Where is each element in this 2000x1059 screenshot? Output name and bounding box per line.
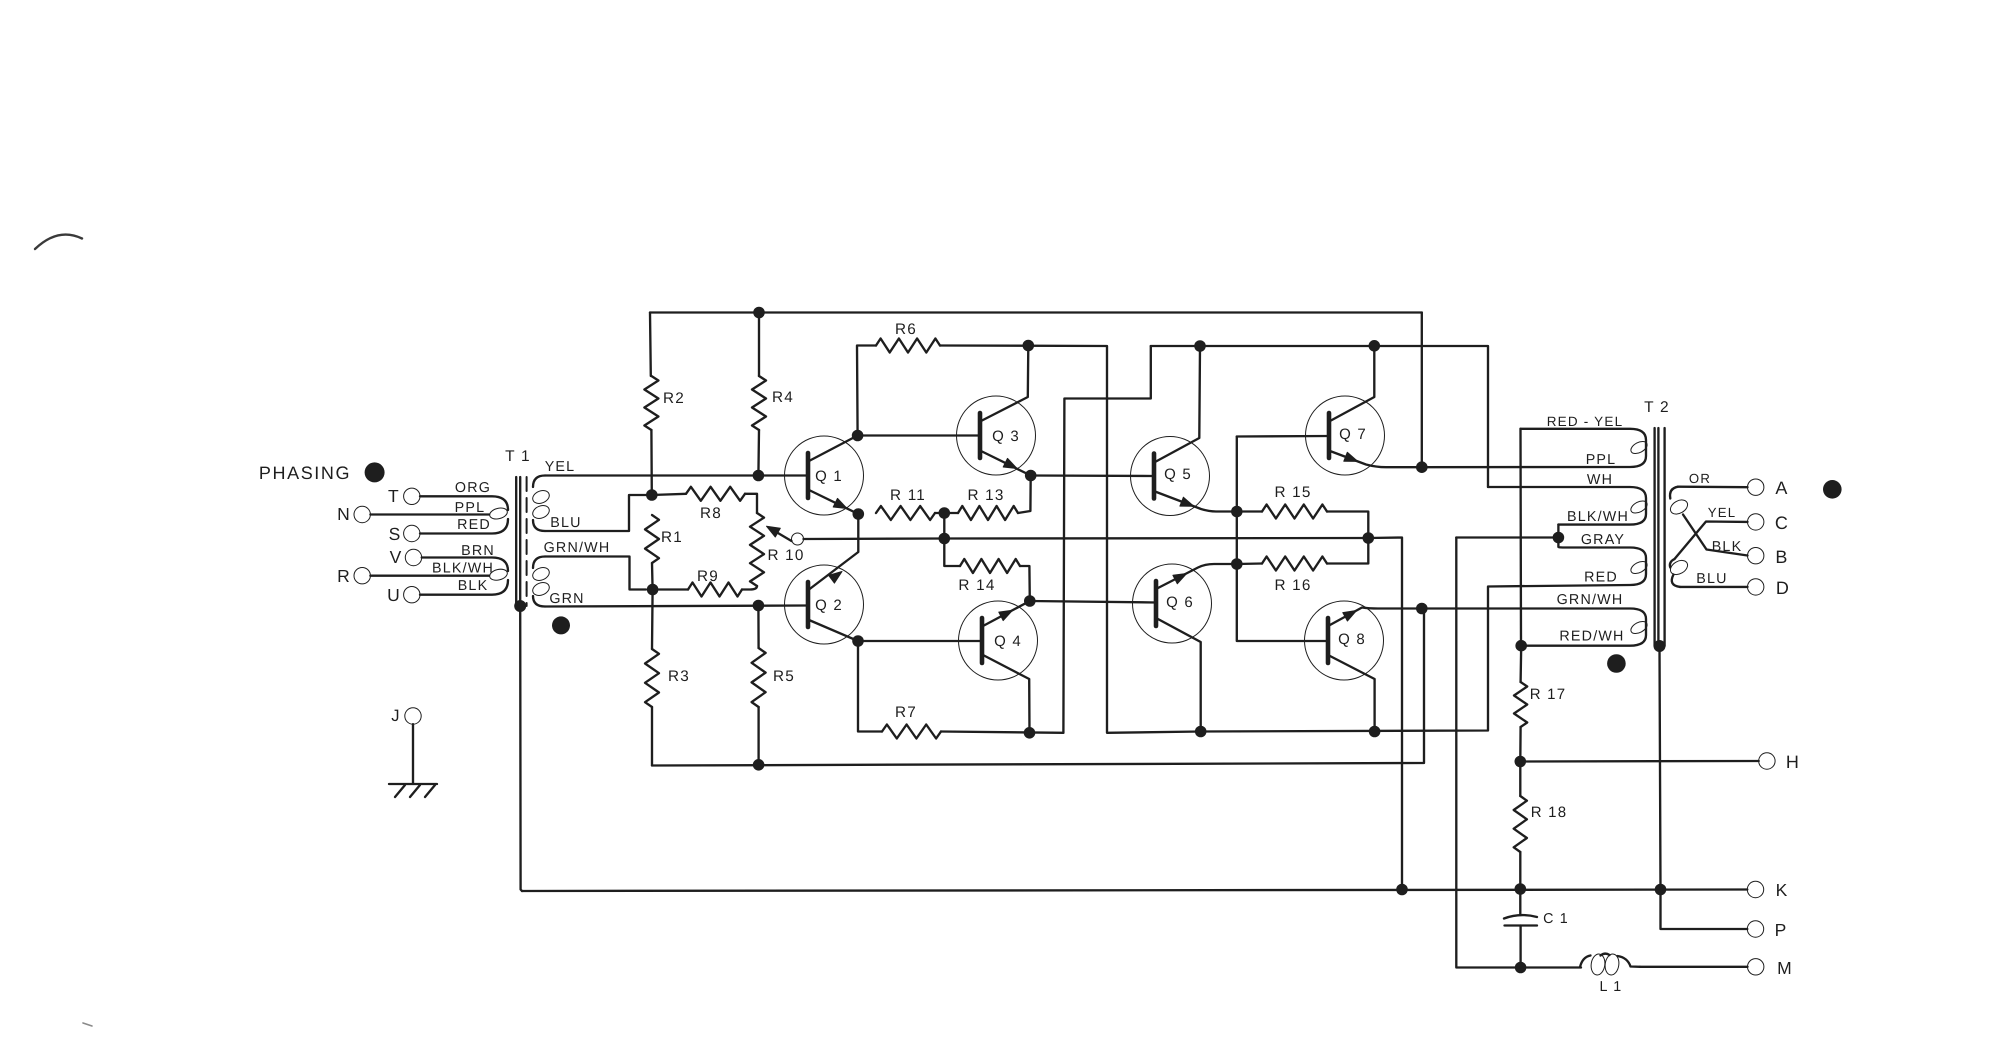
wire bottom rail <box>652 609 1424 766</box>
svg-text:RED - YEL: RED - YEL <box>1547 414 1624 429</box>
wire GRN to Q2 base <box>545 606 807 607</box>
wire R2 to R1 <box>650 430 653 495</box>
T2 primary section WH/BLK-WH <box>1488 487 1646 525</box>
wire H line <box>1520 760 1758 763</box>
node Q5 emitter / R15 / driver bus <box>1231 506 1243 518</box>
Q7 base wire <box>1237 435 1329 438</box>
transistor Q8 <box>1305 601 1384 680</box>
svg-text:GRN: GRN <box>549 591 584 607</box>
wire R4 top lead <box>758 313 760 377</box>
wire M line <box>1521 966 1581 968</box>
svg-text:R7: R7 <box>895 704 917 721</box>
capacitor C1 <box>1519 889 1521 915</box>
node Q6 collector / bottom collector line <box>1195 726 1207 738</box>
resistor R10 (pot) <box>750 513 764 586</box>
resistor R6 <box>876 339 940 353</box>
svg-text:YEL: YEL <box>545 459 576 475</box>
wire R5 bottom lead <box>757 707 759 765</box>
svg-text:C 1: C 1 <box>1543 911 1569 927</box>
svg-text:D: D <box>1776 578 1790 598</box>
Q2 collector <box>809 620 858 641</box>
resistor R5 <box>752 648 766 707</box>
svg-text:C: C <box>1775 513 1789 533</box>
phasing dot below T1 <box>552 616 570 634</box>
node RED/WH / R17 top <box>1515 640 1527 652</box>
svg-text:ORG: ORG <box>455 480 491 496</box>
wire R13 left <box>944 512 958 514</box>
wire GRAY feedback line <box>1456 536 1558 538</box>
wire R11-R13 node to wiper line <box>943 513 945 539</box>
T1 secondary winding GRN-WH/GRN <box>533 557 545 569</box>
node Q4 collector / R7 line <box>1024 727 1036 739</box>
svg-text:J: J <box>391 707 400 725</box>
Q3 emitter <box>981 451 1031 476</box>
svg-text:BLU: BLU <box>1696 571 1727 587</box>
wire R14 left lead <box>944 539 960 567</box>
svg-text:WH: WH <box>1587 472 1613 488</box>
Q8 collector <box>1329 656 1375 732</box>
Q2 emitter to shared node <box>809 514 858 590</box>
transistor Q2 <box>785 565 864 644</box>
svg-text:P: P <box>1775 920 1788 940</box>
wire YEL to Q1 base <box>545 474 807 476</box>
wire BLU to terminal D <box>1680 586 1748 588</box>
svg-text:Q 3: Q 3 <box>992 428 1020 445</box>
T1 primary loop (upper) <box>489 506 509 520</box>
ground symbol <box>389 783 437 785</box>
wire wiper line to K (GRAY feedback) <box>804 538 1403 890</box>
T1 secondary winding YEL/BLU <box>533 476 545 488</box>
resistor R18 <box>1514 796 1527 852</box>
Q5 base wire <box>1031 474 1154 477</box>
wire RED-YEL to RED/WH tie <box>1519 429 1522 646</box>
node wiper/K junction <box>1396 884 1408 896</box>
node wiper tap <box>939 533 951 545</box>
terminal C <box>1748 514 1764 530</box>
Q5 collector <box>1155 346 1200 462</box>
svg-text:N: N <box>337 504 351 524</box>
svg-text:R 18: R 18 <box>1531 804 1568 821</box>
transistor Q4 <box>959 601 1038 680</box>
transistor Q1 <box>785 436 864 515</box>
wire BLK-WH drop to GRAY node <box>1557 525 1559 538</box>
resistor R11 <box>876 506 935 520</box>
svg-text:T 1: T 1 <box>505 448 531 465</box>
svg-text:RED: RED <box>1584 569 1618 585</box>
phasing dot right of A <box>1823 480 1842 499</box>
svg-text:GRN/WH: GRN/WH <box>1557 592 1624 608</box>
svg-text:BLK: BLK <box>458 578 489 594</box>
wire R15 left <box>1237 510 1262 512</box>
Q7 emitter <box>1330 451 1422 467</box>
Q5 emitter <box>1155 492 1237 512</box>
Q3 base wire <box>858 434 980 436</box>
wire R7 line riser <box>1063 346 1150 733</box>
R10 wiper arrow <box>772 530 792 542</box>
svg-text:Q 6: Q 6 <box>1166 594 1194 611</box>
page curl artifact <box>35 235 82 249</box>
node GRAY center tap <box>1553 532 1565 544</box>
svg-text:R5: R5 <box>773 668 795 685</box>
svg-text:BLK/WH: BLK/WH <box>432 560 494 576</box>
svg-text:YEL: YEL <box>1708 505 1737 520</box>
transistor Q5 <box>1131 437 1210 516</box>
terminal D <box>1748 579 1764 595</box>
svg-text:U: U <box>387 585 401 605</box>
wire BLK/WH <box>370 575 489 577</box>
wire R6 right segment <box>940 346 1201 733</box>
wire GRN/WH to R9 node <box>545 557 646 590</box>
wire R2 top <box>649 313 652 377</box>
resistor R16 <box>1262 557 1327 571</box>
transistor Q3 <box>957 396 1036 475</box>
resistor R2 <box>644 376 658 430</box>
wire R9 left <box>653 588 688 590</box>
wire collector line to RED tap <box>1201 587 1488 732</box>
wire R8 right to R10 <box>745 494 757 513</box>
wire secondary diagonal to BLK <box>1683 515 1748 556</box>
wire collector rail right segment <box>1151 346 1488 487</box>
svg-text:R 16: R 16 <box>1274 577 1311 594</box>
wire R13 right riser <box>1018 476 1031 514</box>
wire R16 right <box>1327 538 1368 564</box>
wire BLU to R1 top <box>545 495 646 531</box>
terminal M <box>1748 959 1764 975</box>
terminal H <box>1759 753 1775 769</box>
wire top rail drop to PPL node <box>1421 313 1423 468</box>
svg-text:R3: R3 <box>668 668 690 685</box>
node Q3 collector on R6 rail <box>1023 340 1035 352</box>
svg-text:R4: R4 <box>772 389 794 406</box>
wire YEL diagonal <box>1675 522 1748 560</box>
svg-text:R 14: R 14 <box>958 577 995 594</box>
resistor R8 <box>686 487 745 501</box>
Q1 emitter <box>809 490 858 514</box>
svg-text:R6: R6 <box>895 321 917 338</box>
node Q5 collector on rail <box>1194 340 1206 352</box>
svg-text:PHASING: PHASING <box>259 463 351 483</box>
svg-text:R 11: R 11 <box>890 487 926 504</box>
wire K line <box>522 890 1747 892</box>
wire R18 top lead <box>1519 762 1521 797</box>
resistor R15 <box>1262 505 1327 519</box>
resistor R1 <box>645 515 659 563</box>
terminal B <box>1748 548 1764 564</box>
resistor R17 <box>1514 682 1527 727</box>
wire BLK <box>420 580 508 595</box>
svg-text:R 17: R 17 <box>1530 686 1567 703</box>
wire R17 top lead <box>1519 646 1522 682</box>
node R1 top / R8 / BLU <box>646 489 658 501</box>
svg-text:R2: R2 <box>663 390 685 407</box>
wire R11 right <box>935 512 944 514</box>
resistor R14 <box>960 559 1020 573</box>
svg-text:R 15: R 15 <box>1274 484 1311 501</box>
Q6 emitter <box>1157 564 1237 589</box>
svg-text:BLU: BLU <box>550 515 581 531</box>
R10 wiper terminal <box>792 533 804 545</box>
svg-text:K: K <box>1776 880 1789 900</box>
Q8 emitter <box>1329 608 1422 626</box>
svg-text:RED: RED <box>457 517 491 533</box>
Q4 collector <box>983 655 1030 733</box>
transformer T2 core <box>1653 428 1655 646</box>
svg-text:R8: R8 <box>700 505 722 522</box>
node Q1 collector / Q3 base / R6 <box>852 430 864 442</box>
phasing dot below T2 primary <box>1607 654 1626 673</box>
svg-text:L 1: L 1 <box>1600 979 1623 995</box>
Q7 collector <box>1330 346 1374 421</box>
Q6 base wire <box>1030 601 1156 603</box>
node R4 top <box>753 307 765 319</box>
wire R16 left <box>1237 562 1262 565</box>
wire ORG <box>420 496 508 510</box>
wire R18 bottom lead <box>1519 852 1521 889</box>
wire J to ground <box>412 724 414 784</box>
svg-text:OR: OR <box>1689 471 1711 486</box>
svg-text:Q 5: Q 5 <box>1164 466 1192 483</box>
node R1 bottom / R9 / GRN-WH <box>647 584 659 596</box>
T2 primary section GRN-WH/RED-WH <box>1422 609 1646 646</box>
node GRAY feedback tap <box>1363 532 1375 544</box>
Q4 base wire <box>858 640 982 642</box>
svg-text:R1: R1 <box>661 529 683 546</box>
transistor Q6 <box>1133 564 1212 643</box>
Q3 collector <box>981 346 1028 422</box>
svg-text:BLK: BLK <box>1712 539 1743 555</box>
wire T1 core to K line <box>520 606 522 891</box>
resistor R3 <box>645 649 659 707</box>
Q6 collector <box>1157 619 1201 732</box>
svg-text:V: V <box>390 547 403 567</box>
svg-text:B: B <box>1775 547 1788 567</box>
svg-text:Q 7: Q 7 <box>1339 426 1367 443</box>
svg-text:S: S <box>389 524 402 544</box>
T2 core bottom junction <box>1654 640 1666 652</box>
transformer T1 core <box>515 477 517 606</box>
svg-text:GRAY: GRAY <box>1581 532 1625 548</box>
T2 secondary winding upper <box>1670 487 1678 499</box>
node Q1 base / R4 <box>753 470 765 482</box>
wire R14 right lead <box>1020 566 1030 601</box>
wire R3 leads <box>651 590 654 650</box>
svg-text:Q 4: Q 4 <box>994 633 1022 650</box>
node Q8 collector <box>1369 726 1381 738</box>
Q4 emitter <box>983 601 1030 626</box>
node Q4 emitter / Q6 base <box>1024 595 1036 607</box>
Q1 collector <box>809 436 858 462</box>
svg-text:R: R <box>337 566 351 586</box>
wire R1 bottom <box>651 563 654 590</box>
svg-text:Q 1: Q 1 <box>815 468 843 485</box>
phasing dot (left) <box>365 462 385 482</box>
node Q2 collector / Q4 base / R7 <box>852 635 864 647</box>
node R5 bottom rail <box>753 759 765 771</box>
wire RED <box>420 519 508 534</box>
wire top rail <box>650 311 1422 313</box>
svg-text:Q 8: Q 8 <box>1338 631 1366 648</box>
T2 primary section GRAY/RED <box>1488 538 1646 587</box>
T2 primary section RED-YEL/PPL <box>1422 429 1646 467</box>
transistor Q7 <box>1306 396 1385 475</box>
svg-text:Q 2: Q 2 <box>815 597 843 614</box>
node R17/R18/H <box>1515 756 1527 768</box>
svg-text:RED/WH: RED/WH <box>1559 628 1624 644</box>
wire GRAY tap drop to M line <box>1456 538 1520 968</box>
wire Q1 collector to R6 <box>857 346 876 436</box>
wire R8 left <box>652 494 686 495</box>
svg-text:A: A <box>1775 478 1788 498</box>
wire BRN <box>422 558 508 572</box>
resistor R7 <box>882 725 941 739</box>
svg-text:R 10: R 10 <box>767 547 804 564</box>
resistor R13 <box>958 506 1018 520</box>
node Q7 collector on rail <box>1369 340 1381 352</box>
svg-text:R9: R9 <box>697 568 719 585</box>
svg-text:T: T <box>388 486 400 506</box>
wire R10 bottom to R9 <box>742 586 757 590</box>
svg-text:BLK/WH: BLK/WH <box>1567 509 1629 525</box>
node Q3 emitter / Q5 base <box>1025 470 1037 482</box>
terminal P <box>1747 921 1763 937</box>
wire P branch <box>1661 890 1748 930</box>
node Q1 emitter / R11 <box>853 508 865 520</box>
wire R5 top lead <box>757 606 760 649</box>
svg-text:H: H <box>1786 752 1800 772</box>
T1 core bottom junction <box>514 600 526 612</box>
terminal A <box>1748 479 1764 495</box>
wire T2 core bottom to K/P <box>1660 646 1661 890</box>
T1 primary loop (lower) <box>489 567 509 581</box>
node Q6 emitter / R16 <box>1231 558 1243 570</box>
wire PPL <box>370 513 489 515</box>
wire driver bus (Q7 base to Q8 base) <box>1237 437 1326 642</box>
node Q7 emitter / PPL / top rail <box>1416 461 1428 473</box>
terminal K <box>1747 881 1763 897</box>
wire R15 right <box>1327 512 1368 539</box>
node R18 / C1 / K line <box>1515 883 1527 895</box>
node Q8 emitter / GRN-WH / bottom rail <box>1416 603 1428 615</box>
wire OR to terminal A <box>1678 486 1748 489</box>
svg-text:M: M <box>1777 958 1793 978</box>
wire Q2 collector to R7 <box>858 641 882 732</box>
svg-text:R 13: R 13 <box>967 487 1004 504</box>
svg-text:T 2: T 2 <box>1644 399 1670 416</box>
inductor L1 <box>1580 956 1591 968</box>
wire R7 right <box>941 732 1063 733</box>
node Q2 base / R5 <box>753 600 765 612</box>
svg-text:PPL: PPL <box>1586 452 1617 468</box>
T2 secondary winding lower <box>1670 559 1675 568</box>
resistor R4 <box>752 376 766 430</box>
wire R4 bottom lead <box>757 430 760 476</box>
svg-text:GRN/WH: GRN/WH <box>544 540 611 556</box>
wire R17 bottom lead <box>1519 727 1522 762</box>
resistor R9 <box>688 583 742 597</box>
node core/K/P junction <box>1655 884 1667 896</box>
wire L1 to terminal M <box>1640 966 1748 968</box>
node C1 bottom / M line <box>1515 962 1527 974</box>
node R11/R13 junction <box>939 507 951 519</box>
